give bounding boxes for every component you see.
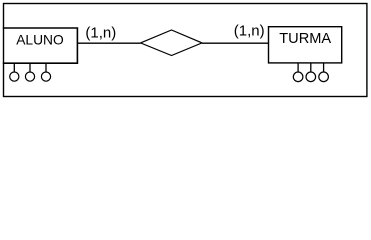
frame border <box>4 4 367 97</box>
wire ALUNO to relationship <box>77 42 140 44</box>
attribute circle A2 <box>25 72 34 81</box>
attribute circle A3 <box>41 72 50 81</box>
wire relationship to TURMA <box>202 42 269 44</box>
entity TURMA <box>269 27 342 63</box>
attribute stem T1 <box>297 63 299 73</box>
attribute circle T2 <box>306 72 316 82</box>
entity ALUNO <box>3 28 78 63</box>
attribute circle T1 <box>293 72 303 82</box>
attribute circle A1 <box>10 72 19 81</box>
attribute stem A1 <box>13 63 15 72</box>
attribute stem A2 <box>29 63 31 72</box>
attribute stem T2 <box>310 63 312 73</box>
attribute stem T3 <box>323 63 325 73</box>
attribute stem A3 <box>45 63 47 72</box>
svg-text:(1,n): (1,n) <box>234 22 265 39</box>
svg-text:(1,n): (1,n) <box>85 25 116 42</box>
svg-text:TURMA: TURMA <box>279 31 331 47</box>
svg-text:ALUNO: ALUNO <box>16 33 64 48</box>
attribute circle T3 <box>319 72 329 82</box>
relationship diamond <box>141 30 203 56</box>
